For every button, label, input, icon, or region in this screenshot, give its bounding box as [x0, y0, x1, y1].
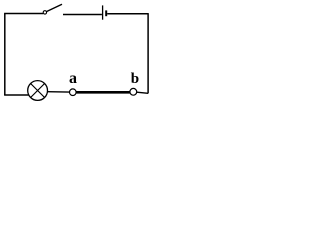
svg-text:b: b	[131, 71, 139, 87]
wire bottom left segment	[4, 94, 29, 96]
resistance wire a-b (thick)	[76, 91, 130, 94]
wire lamp to terminal a	[48, 91, 70, 93]
wire left vertical	[4, 14, 6, 96]
svg-text:a: a	[69, 70, 77, 87]
wire terminal b to bottom right corner	[137, 92, 148, 93]
battery negative plate (short)	[105, 10, 107, 16]
wire right vertical	[147, 13, 149, 93]
wire battery to top right corner	[107, 13, 148, 15]
wire switch to battery	[63, 14, 102, 16]
terminal b	[130, 88, 137, 95]
switch S blade	[46, 4, 62, 11]
switch S (open) pivot	[43, 11, 46, 14]
terminal a	[70, 89, 77, 96]
battery positive plate (long)	[102, 5, 104, 19]
wire top left segment	[4, 13, 43, 15]
lamp L (circle with X)	[28, 81, 48, 101]
